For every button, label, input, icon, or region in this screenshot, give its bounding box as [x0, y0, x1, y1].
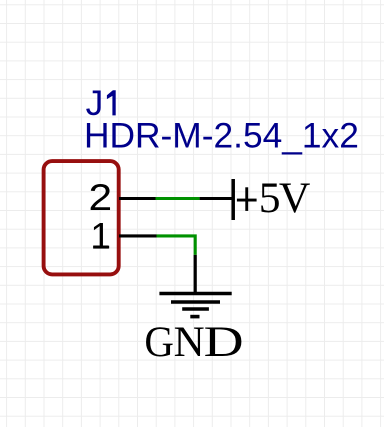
pin 1 lead — [119, 234, 157, 237]
net label GND — [144, 317, 243, 367]
power flag +5V lead — [200, 197, 234, 200]
svg-text:2: 2 — [88, 178, 112, 219]
svg-text:N: N — [174, 318, 205, 366]
wire pin2 (green net segment) — [156, 197, 200, 200]
svg-text:D: D — [204, 317, 244, 366]
connector J1 body — [44, 161, 119, 274]
svg-text:5V: 5V — [259, 174, 310, 222]
pin number 1 — [90, 216, 111, 257]
net label +5V — [237, 187, 257, 211]
svg-text:G: G — [144, 318, 174, 367]
ground symbol bars — [159, 294, 231, 317]
ground symbol lead — [194, 255, 197, 294]
svg-text:HDR-M-2.54_1x2: HDR-M-2.54_1x2 — [84, 116, 359, 155]
svg-text:1: 1 — [90, 216, 111, 257]
power flag +5V bar — [231, 179, 235, 220]
wire pin1 to GND (green net segment) — [157, 236, 196, 255]
pin 2 lead — [119, 197, 156, 200]
